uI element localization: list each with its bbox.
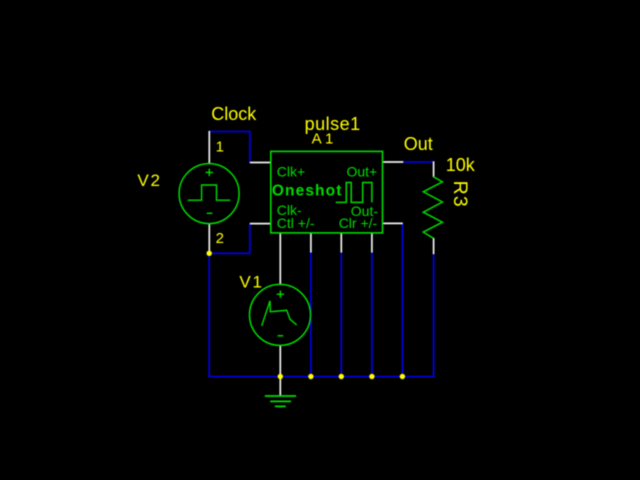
pin stub bottom 3 — [340, 233, 342, 253]
junction dot bus Clr — [400, 374, 405, 379]
voltage source V1 body — [250, 284, 311, 345]
V1 bottom pin stub — [279, 345, 281, 376]
wire Out horizontal — [403, 161, 434, 163]
svg-text:Out: Out — [404, 134, 433, 154]
V2 plus sign — [206, 169, 213, 176]
wire ground bus — [208, 376, 434, 378]
svg-text:Out+: Out+ — [346, 163, 377, 179]
svg-text:Clr +/-: Clr +/- — [339, 215, 378, 231]
wire node2 horizontal — [209, 252, 250, 254]
ground stub — [279, 377, 281, 397]
wire Clock vertical to Clk+ — [249, 131, 251, 163]
pin stub Out+ — [383, 161, 404, 163]
svg-text:R3: R3 — [449, 181, 471, 208]
resistor R3 zigzag — [423, 177, 442, 239]
wire Clock top horizontal — [209, 131, 250, 133]
oneshot box A1 — [271, 151, 383, 233]
R3 top pin stub — [433, 161, 435, 177]
wire pin3 drop — [340, 252, 342, 376]
junction dot bus pin2 — [308, 374, 313, 379]
V2 top pin stub — [208, 131, 210, 164]
voltage source V2 body — [179, 164, 239, 224]
junction dot bus/V1/ground — [278, 374, 283, 379]
junction dot bus pin4 — [369, 374, 374, 379]
svg-text:Clk+: Clk+ — [277, 163, 305, 179]
V2 bottom pin stub — [208, 223, 210, 252]
pin stub bottom 2 — [310, 233, 312, 253]
wire pin4 drop — [371, 252, 373, 376]
svg-text:10k: 10k — [446, 155, 476, 175]
svg-text:1: 1 — [216, 138, 224, 155]
wire left drop V2 to bus — [208, 253, 210, 377]
wire node2 vertical to Ctl — [249, 224, 251, 255]
svg-text:Ctl +/-: Ctl +/- — [277, 215, 315, 231]
pin stub Clk+ — [250, 162, 271, 164]
V1 minus sign — [278, 335, 284, 337]
wire pin2 drop — [310, 252, 312, 376]
svg-text:2: 2 — [216, 230, 224, 247]
V1 plus sign — [277, 291, 284, 298]
svg-text:V1: V1 — [239, 273, 263, 292]
wire Clr drop — [401, 223, 403, 376]
svg-text:A1: A1 — [312, 131, 337, 148]
ground symbol — [265, 396, 296, 406]
R3 bottom pin stub — [433, 238, 435, 254]
V2 pulse waveform glyph — [188, 185, 231, 200]
wire resistor bottom to bus — [433, 254, 435, 377]
pin stub bottom 1 + V1 top stub — [279, 233, 281, 285]
svg-text:V2: V2 — [137, 171, 161, 190]
pin stub Clr — [383, 222, 403, 224]
junction dot bus pin3 — [339, 374, 344, 379]
V2 minus sign — [207, 212, 213, 214]
V1 pwl waveform glyph — [262, 301, 297, 326]
pin stub Ctl — [250, 223, 271, 225]
pin stub bottom 4 — [371, 233, 373, 253]
svg-text:Oneshot: Oneshot — [272, 183, 343, 200]
svg-text:Clock: Clock — [211, 104, 257, 124]
oneshot pulse glyph — [336, 183, 372, 203]
junction dot node 2 — [207, 251, 212, 256]
